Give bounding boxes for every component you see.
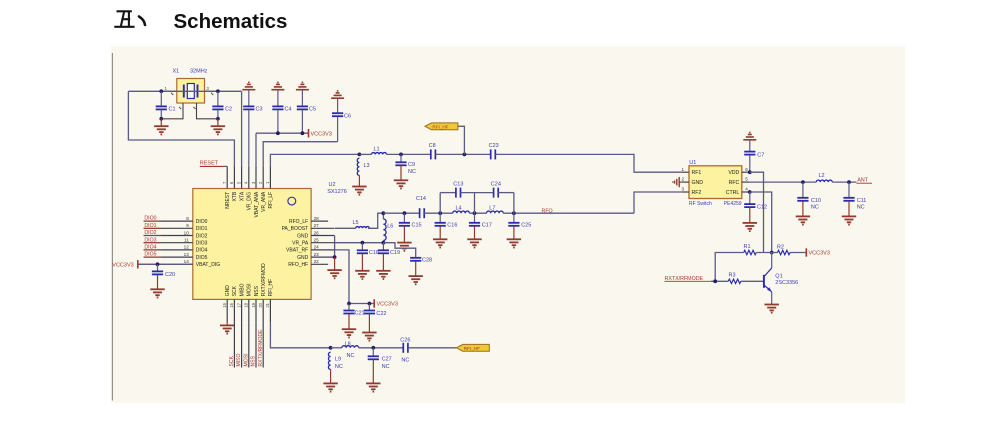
- svg-text:C7: C7: [757, 152, 764, 158]
- schematic sheet background: [111, 46, 905, 403]
- transistor Q1 2SC3356: [764, 253, 798, 292]
- capacitor C12: [744, 192, 767, 222]
- svg-text:XTA: XTA: [239, 191, 245, 201]
- ground under C28: [409, 276, 423, 284]
- svg-text:L4: L4: [456, 206, 462, 212]
- svg-text:L6: L6: [387, 223, 393, 229]
- svg-text:VCC3V3: VCC3V3: [112, 263, 133, 269]
- wire L8 to C26: [359, 346, 404, 350]
- svg-text:L1: L1: [374, 146, 380, 152]
- svg-text:19: 19: [251, 302, 256, 307]
- svg-text:RFO: RFO: [542, 209, 553, 215]
- wire GND pins 26-23: [333, 236, 337, 270]
- svg-text:15: 15: [222, 302, 227, 307]
- svg-text:U1: U1: [689, 160, 696, 166]
- svg-text:26: 26: [314, 230, 320, 235]
- svg-text:GND: GND: [297, 233, 309, 239]
- node L6 top: [382, 211, 386, 215]
- svg-text:NC: NC: [382, 364, 390, 370]
- resistor R1: [744, 244, 757, 255]
- svg-text:L9: L9: [335, 357, 341, 363]
- wire R1 to R2: [756, 252, 777, 254]
- svg-text:L5: L5: [353, 220, 359, 226]
- wire R1 left leg: [715, 253, 744, 282]
- power port VCC3V3 top: [309, 129, 332, 137]
- svg-text:NC: NC: [401, 358, 409, 364]
- wire R3 to base: [741, 280, 763, 282]
- svg-text:GND: GND: [297, 255, 309, 261]
- capacitor C8: [429, 143, 436, 159]
- svg-text:8: 8: [186, 216, 189, 221]
- wire L4 to L7: [470, 211, 487, 215]
- ground under C12: [743, 223, 757, 231]
- svg-text:NSS: NSS: [254, 285, 260, 296]
- wire C26 to flag: [408, 347, 456, 349]
- wire RXTX to R3: [711, 279, 728, 283]
- svg-text:4: 4: [745, 187, 748, 192]
- svg-text:9: 9: [186, 223, 189, 228]
- svg-text:R2: R2: [777, 245, 784, 251]
- svg-text:CTRL: CTRL: [726, 190, 740, 196]
- net label RFO: [542, 209, 553, 215]
- svg-text:R3: R3: [729, 273, 736, 279]
- capacitor C18: [357, 243, 379, 271]
- svg-text:SCK: SCK: [232, 285, 238, 296]
- ground under C21: [342, 329, 356, 337]
- svg-text:SX1276: SX1276: [327, 189, 347, 195]
- capacitor C13: [453, 182, 463, 198]
- svg-text:C4: C4: [285, 107, 292, 113]
- svg-text:GND: GND: [225, 285, 231, 297]
- wire VBAT_RF to C21 rail: [334, 250, 349, 304]
- svg-text:VBAT_DIG: VBAT_DIG: [196, 262, 220, 268]
- svg-text:25: 25: [314, 238, 320, 243]
- svg-text:NC: NC: [335, 364, 343, 370]
- capacitor C17: [469, 213, 492, 239]
- svg-text:VR_PA: VR_PA: [292, 241, 309, 247]
- svg-text:VR_ANA: VR_ANA: [261, 191, 267, 212]
- capacitor C4: [272, 106, 291, 133]
- svg-text:RESET: RESET: [200, 161, 219, 167]
- svg-text:C21: C21: [355, 311, 365, 317]
- wire VCC rail bottom: [347, 302, 374, 306]
- title 、: [139, 17, 145, 26]
- wire XTB loop: [128, 91, 234, 166]
- svg-text:C9: C9: [408, 162, 415, 168]
- node VDD: [748, 170, 752, 174]
- svg-text:RFO_HF: RFO_HF: [288, 262, 308, 268]
- svg-text:2: 2: [682, 177, 685, 182]
- wire R2 to VCC: [790, 252, 806, 254]
- svg-text:DIO1: DIO1: [196, 226, 208, 232]
- svg-text:14: 14: [184, 259, 190, 264]
- svg-text:C11: C11: [857, 198, 867, 204]
- resistor R2: [777, 245, 790, 255]
- ground under C11: [842, 216, 856, 224]
- capacitor C24: [491, 182, 501, 198]
- svg-text:12: 12: [184, 245, 190, 250]
- net label RXTX/RFMODE: [665, 276, 712, 282]
- svg-text:Q1: Q1: [775, 274, 782, 280]
- svg-text:20: 20: [258, 302, 263, 307]
- ground under C19: [376, 271, 390, 279]
- svg-text:C15: C15: [412, 223, 422, 229]
- svg-text:21: 21: [265, 302, 270, 307]
- svg-text:VCC3V3: VCC3V3: [311, 131, 332, 137]
- svg-text:Schematics: Schematics: [174, 10, 288, 33]
- wire L3 node to L1: [359, 153, 371, 155]
- wire crystal top net: [128, 89, 241, 93]
- title 五 (hand drawn strokes): [114, 11, 134, 26]
- capacitor C11 NC: [843, 182, 866, 216]
- ground above C3: [242, 82, 255, 106]
- svg-text:C3: C3: [256, 107, 263, 113]
- ground under C18: [355, 271, 369, 279]
- net label ANT: [856, 178, 872, 184]
- capacitor C14: [416, 196, 426, 218]
- label U1: [689, 160, 696, 166]
- svg-text:RFI_HF: RFI_HF: [432, 124, 448, 129]
- capacitor C9 NC: [395, 154, 416, 179]
- wire L5 up to RFO row: [368, 213, 383, 228]
- capacitor C7: [744, 152, 764, 173]
- svg-text:L7: L7: [489, 206, 495, 212]
- ground under C17: [467, 239, 481, 247]
- svg-text:C28: C28: [422, 258, 432, 264]
- wire C24 down: [498, 193, 514, 214]
- capacitor C16: [435, 213, 458, 239]
- node R1 R2 junction: [770, 251, 774, 255]
- svg-text:32MHz: 32MHz: [190, 69, 208, 75]
- inductor L7: [487, 206, 504, 214]
- svg-text:VDD: VDD: [728, 170, 739, 176]
- svg-text:6: 6: [745, 167, 748, 172]
- svg-text:NC: NC: [857, 205, 865, 211]
- svg-text:NC: NC: [347, 353, 355, 359]
- inductor L1: [372, 146, 387, 154]
- ground under C25: [507, 239, 521, 247]
- svg-text:L8: L8: [345, 341, 351, 347]
- svg-text:X1: X1: [173, 69, 180, 75]
- capacitor C21: [343, 304, 364, 329]
- sheet left border: [111, 53, 113, 401]
- svg-text:1: 1: [682, 167, 685, 172]
- ground U1 pin2: [673, 177, 681, 187]
- inductor L9 NC: [328, 352, 342, 370]
- svg-text:VCC3V3: VCC3V3: [809, 251, 830, 257]
- node CTRL: [748, 190, 752, 194]
- svg-text:27: 27: [314, 223, 320, 228]
- svg-text:RFI_LF: RFI_LF: [268, 192, 274, 209]
- wire XTA drop to pin: [241, 91, 243, 166]
- svg-text:23: 23: [314, 252, 320, 257]
- wire C28 branch: [383, 243, 415, 258]
- ground under C22: [362, 333, 376, 341]
- svg-text:GND: GND: [692, 180, 704, 186]
- svg-text:C25: C25: [521, 223, 531, 229]
- capacitor C26 NC: [400, 337, 410, 363]
- wire crystal case pin 2: [161, 103, 183, 119]
- capacitor C3: [243, 106, 262, 166]
- svg-text:RXTX/RFMOD: RXTX/RFMOD: [261, 263, 267, 296]
- inductor L3: [357, 158, 369, 175]
- U2 bottom pins 15-21: [222, 299, 270, 322]
- ground under C9: [394, 180, 408, 188]
- U2 top pins 7-1: [222, 166, 270, 188]
- wire L7 to RFO right: [503, 211, 634, 215]
- svg-text:16: 16: [229, 302, 234, 307]
- power port VCC3V3 right: [806, 248, 830, 256]
- label RF Switch PE4259: [689, 201, 742, 207]
- svg-text:XTB: XTB: [232, 191, 238, 201]
- svg-text:28: 28: [314, 216, 320, 221]
- U2 right pins 28-22: [311, 216, 335, 264]
- op-amp U2 SX1276 body: [193, 189, 311, 300]
- svg-text:RXTX/RFMODE: RXTX/RFMODE: [258, 329, 264, 367]
- inductor L6: [383, 213, 393, 243]
- wire L2 to ANT: [832, 180, 856, 184]
- svg-text:DIO5: DIO5: [196, 255, 208, 261]
- wire L1 to C8: [387, 153, 431, 157]
- wire CTRL down: [750, 192, 772, 253]
- capacitor C19: [378, 243, 400, 271]
- U1 pins: [681, 167, 750, 192]
- svg-text:C20: C20: [165, 272, 175, 278]
- ground under C1: [154, 119, 168, 135]
- ground above C4: [271, 82, 284, 106]
- svg-text:VBAT_RF: VBAT_RF: [286, 248, 308, 254]
- svg-text:22: 22: [314, 259, 320, 264]
- ground above C7: [743, 132, 756, 151]
- net label RESET: [200, 161, 227, 167]
- wire C13 to C24: [461, 193, 494, 214]
- svg-text:RFI_HF: RFI_HF: [268, 279, 274, 297]
- capacitor C28: [410, 258, 432, 276]
- svg-text:DIO4: DIO4: [196, 248, 208, 254]
- svg-text:MIBO: MIBO: [239, 283, 245, 296]
- svg-text:C5: C5: [309, 107, 316, 113]
- ground under L3: [352, 175, 366, 194]
- wire emitter down: [771, 292, 773, 304]
- svg-text:VCC3V3: VCC3V3: [377, 302, 398, 308]
- svg-text:DIO2: DIO2: [196, 233, 208, 239]
- svg-text:3: 3: [682, 187, 685, 192]
- svg-text:NC: NC: [408, 169, 416, 175]
- net labels DIO0-DIO5: [144, 216, 161, 258]
- svg-text:L2: L2: [819, 173, 825, 179]
- svg-text:RFO_LF: RFO_LF: [289, 219, 308, 225]
- wire C23 to U1 RF1: [495, 154, 681, 172]
- ground under L9: [323, 369, 337, 391]
- wire PA_BOOST to L5: [335, 227, 356, 229]
- net flag RFI_HF bottom: [456, 344, 489, 351]
- wire VR_ANA to C6: [263, 142, 337, 167]
- svg-text:RF1: RF1: [692, 170, 702, 176]
- ground under C2: [211, 119, 225, 135]
- inductor L8 NC: [331, 341, 359, 359]
- svg-text:18: 18: [244, 302, 249, 307]
- svg-text:NSS: NSS: [251, 355, 257, 366]
- svg-text:DIO0: DIO0: [196, 219, 208, 225]
- svg-text:DIO3: DIO3: [196, 241, 208, 247]
- wire RFI_LF to L3 node: [270, 153, 361, 167]
- capacitor C23: [489, 143, 499, 159]
- capacitor C25: [508, 213, 531, 239]
- svg-text:C10: C10: [811, 198, 821, 204]
- svg-text:C14: C14: [416, 196, 426, 202]
- ground under C15: [397, 243, 411, 251]
- svg-text:C12: C12: [757, 204, 767, 210]
- ground above C6: [331, 91, 344, 113]
- svg-text:C8: C8: [429, 143, 436, 149]
- power port VCC3V3 bottom: [374, 299, 398, 307]
- svg-text:PE4259: PE4259: [724, 201, 742, 207]
- wire VCC3V3 rail: [256, 131, 309, 166]
- svg-text:24: 24: [314, 245, 320, 250]
- capacitor C5: [297, 106, 316, 133]
- wire RFI_HF pin21: [270, 322, 332, 349]
- wire RFC to L2: [750, 180, 817, 184]
- svg-text:C19: C19: [390, 250, 400, 256]
- ground pins 26-23: [327, 270, 341, 278]
- svg-text:R1: R1: [744, 244, 751, 250]
- svg-text:RF Switch: RF Switch: [689, 201, 712, 207]
- svg-text:ANT: ANT: [857, 178, 868, 184]
- wire VR_PA net: [335, 241, 386, 245]
- capacitor C27 NC: [368, 348, 392, 383]
- svg-text:MOSI: MOSI: [243, 353, 249, 366]
- ground under C16: [433, 239, 447, 247]
- svg-text:C23: C23: [489, 143, 499, 149]
- power port VCC3V3 left: [112, 260, 143, 269]
- ground under C10: [796, 216, 810, 224]
- wire RFO row L6 to C14: [383, 211, 419, 215]
- svg-text:VR_DIG: VR_DIG: [247, 192, 253, 211]
- svg-text:U2: U2: [329, 182, 336, 188]
- ground pin 15: [220, 322, 234, 333]
- capacitor C10 NC: [797, 182, 821, 216]
- svg-text:PA_BOOST: PA_BOOST: [282, 226, 309, 232]
- svg-text:10: 10: [184, 230, 190, 235]
- svg-text:5: 5: [745, 177, 748, 182]
- svg-text:MOSI: MOSI: [247, 284, 253, 297]
- svg-text:C26: C26: [400, 337, 410, 343]
- ground under C27: [366, 383, 380, 391]
- capacitor C6: [332, 113, 351, 142]
- svg-text:RF2: RF2: [692, 190, 702, 196]
- svg-text:2SC3356: 2SC3356: [775, 280, 798, 286]
- svg-text:C1: C1: [169, 107, 176, 113]
- capacitor C1: [156, 91, 176, 120]
- capacitor C20: [152, 264, 175, 289]
- svg-text:L3: L3: [364, 163, 370, 169]
- resistor R3: [728, 273, 740, 284]
- svg-text:C17: C17: [482, 223, 492, 229]
- inductor L4: [453, 206, 470, 214]
- wire VBAT_DIG net: [138, 262, 193, 266]
- svg-text:C18: C18: [369, 250, 379, 256]
- svg-text:17: 17: [236, 302, 241, 307]
- svg-text:SCK: SCK: [229, 355, 235, 366]
- svg-text:C13: C13: [453, 182, 463, 188]
- svg-text:NC: NC: [811, 205, 819, 211]
- svg-text:C27: C27: [382, 357, 392, 363]
- svg-text:13: 13: [184, 252, 190, 257]
- wire C13 branch up: [440, 193, 456, 214]
- svg-text:MISO: MISO: [236, 353, 242, 366]
- inductor L5: [353, 220, 370, 228]
- wire C8 to C23: [435, 153, 490, 157]
- svg-text:C2: C2: [225, 107, 232, 113]
- svg-text:C22: C22: [376, 311, 386, 317]
- capacitor C2: [212, 91, 232, 120]
- U2 left pins 8-14: [144, 216, 193, 264]
- net labels SCK MISO MOSI NSS RXTX/RFMODE: [229, 322, 264, 367]
- svg-text:VBAT_ANA: VBAT_ANA: [254, 191, 260, 217]
- wire VDD down: [750, 172, 764, 252]
- ground above C5: [296, 82, 309, 106]
- svg-text:C6: C6: [344, 113, 351, 119]
- svg-text:C24: C24: [491, 182, 501, 188]
- capacitor C15: [399, 213, 422, 242]
- net flag RFI_HF top: [425, 123, 465, 154]
- wire C14 to L4: [424, 211, 453, 215]
- svg-text:RFI_HF: RFI_HF: [464, 346, 480, 351]
- label U2: [327, 182, 347, 195]
- svg-text:NREST: NREST: [225, 192, 231, 209]
- ground under Q1: [765, 305, 779, 313]
- ground under C20: [150, 289, 164, 297]
- svg-text:RFC: RFC: [729, 180, 740, 186]
- RF switch U1 body: [689, 166, 742, 199]
- capacitor C22: [364, 304, 387, 333]
- crystal X1 32MHz: [161, 69, 218, 104]
- svg-text:11: 11: [184, 238, 189, 243]
- wire RFO to U1 RF2: [634, 192, 681, 213]
- svg-text:C16: C16: [447, 223, 457, 229]
- wire crystal case pin 4: [193, 103, 218, 119]
- inductor L2: [816, 173, 832, 182]
